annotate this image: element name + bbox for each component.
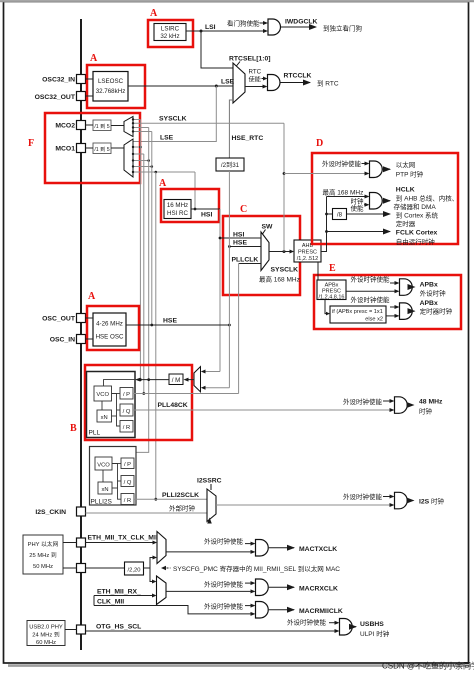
- mux MCO2 input stubs: [133, 119, 140, 121]
- wire MACTXCLK out: [269, 547, 294, 549]
- svg-text:else x2: else x2: [365, 316, 383, 322]
- wire HSI loop into PLL mux: [206, 371, 221, 373]
- wire MCO2 pin: [86, 124, 94, 126]
- svg-text:RTC: RTC: [249, 69, 262, 76]
- wire FCLK: [327, 231, 391, 233]
- PLLI2S /Q: [121, 476, 134, 487]
- svg-text:时钟: 时钟: [419, 407, 433, 416]
- svg-text:48 MHz: 48 MHz: [419, 399, 443, 406]
- wire PLLI2SCLK: [134, 498, 207, 500]
- svg-text:SYSCLK: SYSCLK: [159, 116, 187, 123]
- wire PLLCLK from /P: [133, 393, 239, 395]
- svg-text:/ Q: / Q: [123, 409, 131, 415]
- PLLI2S internal wires: [102, 470, 104, 482]
- divider /M: [169, 374, 183, 385]
- gate USBHS: [340, 619, 353, 636]
- svg-text:25 MHz 到: 25 MHz 到: [29, 552, 57, 559]
- divider /2to31: [216, 158, 244, 171]
- svg-text:A: A: [159, 178, 167, 189]
- wire PLLCLK into SW: [239, 263, 261, 265]
- wire mux to /M: [189, 379, 195, 381]
- svg-text:以太网: 以太网: [396, 160, 416, 169]
- PLLI2S VCO: [95, 457, 112, 470]
- svg-text:HSI RC: HSI RC: [167, 210, 189, 217]
- mux MACTX: [157, 532, 166, 564]
- svg-text:自由运行时钟: 自由运行时钟: [396, 237, 436, 246]
- svg-text:MCO1: MCO1: [55, 146, 75, 153]
- svg-text:OSC_OUT: OSC_OUT: [42, 316, 76, 323]
- svg-text:OSC_IN: OSC_IN: [50, 337, 75, 344]
- bus vertical SYSCLK: [283, 123, 285, 251]
- svg-text:OSC32_IN: OSC32_IN: [42, 77, 75, 84]
- divider /2,20: [125, 562, 144, 575]
- svg-text:60 MHz: 60 MHz: [36, 640, 56, 646]
- svg-text:PLLI2SCLK: PLLI2SCLK: [162, 492, 199, 499]
- svg-text:/ R: / R: [123, 425, 130, 431]
- svg-text:/8: /8: [337, 212, 343, 219]
- svg-text:外设时钟: 外设时钟: [420, 289, 447, 298]
- wire HSI into SW: [220, 237, 261, 239]
- I2S mux select arrow: [207, 518, 212, 524]
- svg-text:/1 到 5: /1 到 5: [94, 123, 109, 130]
- wire OTG_HS clock: [86, 630, 335, 632]
- wire AHB to APB presc: [317, 262, 319, 280]
- SYSCFG select dash arrow: [161, 566, 166, 570]
- svg-text:外设时钟使能: 外设时钟使能: [204, 602, 244, 611]
- wire OSC32_OUT to LSEOSC: [86, 95, 94, 97]
- svg-text:C: C: [240, 204, 247, 215]
- divider APBx PRESC: [317, 280, 346, 300]
- wire mux2 to divider: [111, 125, 124, 127]
- frame bottom shadow: [8, 664, 471, 667]
- svg-text:D: D: [316, 138, 323, 149]
- svg-text:OSC32_OUT: OSC32_OUT: [35, 94, 76, 101]
- gate PTP: [370, 161, 383, 178]
- wire HSE into SW: [229, 246, 261, 248]
- wire RTC mux out: [245, 86, 263, 88]
- wire PHY to TX pin: [63, 542, 77, 544]
- mux PLL source: [194, 367, 201, 392]
- wire MACRMIICLK out: [269, 609, 294, 611]
- pin OTG_HS: [77, 625, 86, 634]
- wire RMII ref clock: [86, 567, 125, 569]
- svg-text:外设时钟使能: 外设时钟使能: [343, 492, 383, 501]
- red box D (AHB clocks): [312, 153, 458, 244]
- if box: [330, 306, 386, 323]
- divider MCO1 /1to5: [93, 143, 111, 154]
- wire LSI: [186, 30, 263, 32]
- gate MACRXCLK: [256, 579, 269, 596]
- svg-text:/2到31: /2到31: [221, 162, 240, 169]
- gate MACTXCLK: [256, 540, 269, 557]
- bus vertical HSI: [219, 209, 221, 372]
- svg-text:USBHS: USBHS: [360, 621, 384, 628]
- wire PTP out: [383, 168, 390, 170]
- PLLI2S block: [90, 447, 137, 506]
- PLLI2S /P: [121, 458, 134, 469]
- svg-text:/ Q: / Q: [124, 480, 132, 486]
- svg-text:LSI: LSI: [205, 24, 216, 31]
- gate HCLK: [370, 193, 383, 210]
- oscillator HSE: [93, 313, 126, 346]
- wire MCO1 pin: [86, 147, 94, 149]
- mux MACRX: [157, 576, 167, 605]
- bus vertical PLL-to-MCO1: [143, 154, 145, 394]
- svg-text:/ M: / M: [172, 377, 181, 384]
- wire OSC32_IN to LSEOSC: [86, 78, 94, 80]
- svg-text:存储器和 DMA: 存储器和 DMA: [394, 202, 437, 211]
- svg-text:CSDN @不吃鱼的小余同学: CSDN @不吃鱼的小余同学: [382, 661, 474, 671]
- svg-text:F: F: [28, 138, 34, 149]
- wire MACTX mux out: [166, 551, 251, 553]
- svg-text:SW: SW: [262, 224, 274, 231]
- svg-text:4-26 MHz: 4-26 MHz: [96, 321, 123, 328]
- svg-text:E: E: [329, 263, 336, 274]
- wire OSC_OUT: [86, 317, 94, 319]
- wire PHY to REF pin: [63, 567, 77, 569]
- svg-text:32.768kHz: 32.768kHz: [96, 88, 126, 95]
- wire RX clock: [94, 595, 152, 597]
- svg-text:USB2.0 PHY: USB2.0 PHY: [29, 625, 63, 631]
- wire HCLK into gate: [327, 196, 365, 198]
- AHB out riser: [321, 197, 327, 252]
- wire PTP clock input: [284, 173, 365, 175]
- svg-text:HSE: HSE: [233, 240, 247, 247]
- svg-text:PLLCLK: PLLCLK: [232, 257, 259, 264]
- wire USB PHY to pin: [65, 629, 77, 631]
- svg-text:SYSCFG_PMC 寄存器中的 MII_RMII_SEL: SYSCFG_PMC 寄存器中的 MII_RMII_SEL 到以太网 MAC: [173, 564, 340, 573]
- svg-text:LSIRC: LSIRC: [161, 26, 180, 33]
- svg-text:I2S 时钟: I2S 时钟: [419, 497, 445, 506]
- red box A4 (HSE OSC): [87, 306, 139, 350]
- mux MCO1: [124, 139, 133, 177]
- bus vertical HSE-to-MCO: [151, 132, 153, 326]
- svg-text:外设时钟使能: 外设时钟使能: [204, 580, 244, 589]
- svg-text:定时器: 定时器: [396, 219, 416, 228]
- bus vertical HSE: [228, 171, 230, 388]
- pin OSC_IN: [77, 335, 86, 344]
- red box F (MCO): [45, 113, 140, 183]
- pin OSC_OUT: [77, 314, 86, 323]
- wire SYSCLK to MCO2: [133, 122, 284, 124]
- riser /2,20 out: [144, 558, 153, 569]
- wire TX clock: [86, 542, 153, 544]
- svg-text:HSI: HSI: [233, 232, 244, 239]
- red box B (PLL): [85, 365, 192, 440]
- wire LSE: [128, 85, 233, 87]
- mux SW: [261, 232, 269, 271]
- svg-text:IWDGCLK: IWDGCLK: [285, 19, 318, 26]
- PLLI2S /R: [121, 494, 134, 505]
- PLL block: [87, 372, 136, 438]
- svg-text:PRESC: PRESC: [298, 250, 317, 256]
- wire PLL48CK from /Q: [133, 409, 390, 411]
- svg-text:定时器时钟: 定时器时钟: [420, 307, 453, 316]
- svg-text:SYSCLK: SYSCLK: [271, 267, 299, 274]
- svg-text:16 MHz: 16 MHz: [167, 202, 188, 209]
- bus vertical PLLI2S-to-MCO2: [139, 120, 141, 380]
- wire 48MHz out: [408, 404, 414, 406]
- svg-text:if (APBx presc = 1x1: if (APBx presc = 1x1: [332, 309, 383, 315]
- USB PHY box: [27, 621, 65, 646]
- svg-text:外设时钟使能: 外设时钟使能: [287, 618, 327, 627]
- svg-text:CLK_MII: CLK_MII: [97, 599, 124, 606]
- svg-text:VCO: VCO: [97, 463, 110, 469]
- svg-text:外设时钟使能: 外设时钟使能: [322, 159, 362, 168]
- pin MCO1: [77, 144, 86, 153]
- gate APBx timer: [400, 303, 413, 320]
- mux MCO1 input stubs: [133, 146, 140, 148]
- svg-text:ETH_MII_RX_: ETH_MII_RX_: [97, 589, 141, 596]
- wire HSE: [126, 324, 229, 326]
- bus vertical HSI-to-MCO1: [194, 172, 196, 209]
- svg-text:最高 168 MHz: 最高 168 MHz: [323, 188, 364, 197]
- svg-text:使能: 使能: [249, 76, 261, 84]
- svg-text:ETH_MII_TX_CLK_MII: ETH_MII_TX_CLK_MII: [88, 535, 158, 542]
- svg-text:I2S_CKIN: I2S_CKIN: [35, 509, 66, 516]
- pin OSC32_IN: [77, 75, 86, 84]
- PLLI2S xN: [98, 482, 112, 494]
- svg-text:I2SSRC: I2SSRC: [197, 478, 222, 485]
- svg-text:/1,2,4,8,16: /1,2,4,8,16: [319, 295, 345, 301]
- mux MCO2: [124, 117, 133, 137]
- wire RTCCLK out: [280, 82, 310, 84]
- gate MACRMIICLK: [256, 602, 269, 619]
- divider /8: [327, 213, 333, 215]
- svg-text:MACRXCLK: MACRXCLK: [299, 586, 338, 593]
- wire LSE vertical to MCO: [133, 86, 216, 142]
- PLL input arrow: [135, 378, 141, 382]
- svg-text:PLL48CK: PLL48CK: [158, 402, 188, 409]
- xN box: [97, 410, 112, 422]
- chip boundary line: [80, 19, 82, 650]
- pin I2S_CKIN: [77, 507, 86, 516]
- pin MCO2: [77, 121, 86, 130]
- svg-text:APBx: APBx: [420, 300, 438, 307]
- svg-text:外设时钟使能: 外设时钟使能: [351, 295, 391, 304]
- svg-text:xN: xN: [101, 415, 108, 421]
- wire HSE loop into PLL mux: [206, 387, 230, 389]
- svg-text:LSE: LSE: [160, 135, 174, 142]
- gate I2S: [395, 492, 408, 509]
- wire I2S external clock: [86, 512, 208, 514]
- wire cortex timer: [347, 213, 391, 215]
- node LSE junction: [215, 85, 218, 88]
- divider /P: [120, 388, 133, 400]
- svg-text:32 kHz: 32 kHz: [160, 33, 179, 40]
- svg-text:MCO2: MCO2: [55, 123, 75, 130]
- svg-text:24 MHz 到: 24 MHz 到: [32, 632, 60, 639]
- oscillator LSEOSC: [93, 72, 128, 102]
- svg-text:时钟: 时钟: [351, 197, 365, 206]
- PLL internal wires: [101, 401, 103, 410]
- svg-text:FCLK Cortex: FCLK Cortex: [396, 230, 438, 237]
- wire I2S out: [408, 500, 414, 502]
- wire MACRX mux out: [166, 590, 251, 592]
- red box A2 (LSEOSC): [87, 65, 145, 108]
- svg-text:RTCCLK: RTCCLK: [284, 73, 312, 80]
- red box A1 (LSIRC): [148, 20, 193, 47]
- wire MACRXCLK out: [269, 586, 294, 588]
- gate 48MHz: [395, 397, 408, 414]
- wire IWDGCLK out: [281, 26, 316, 28]
- svg-text:PLL: PLL: [89, 430, 101, 437]
- svg-text:到 Cortex 系统: 到 Cortex 系统: [396, 211, 439, 220]
- divider AHB PRESC: [294, 240, 321, 262]
- wire OSC_IN: [86, 338, 94, 340]
- wire I2S mux out: [216, 504, 390, 506]
- svg-text:VCO: VCO: [96, 392, 109, 398]
- svg-text:PHY 以太网: PHY 以太网: [28, 540, 59, 548]
- VCO box: [94, 386, 112, 401]
- svg-text:HSI: HSI: [201, 212, 212, 219]
- svg-text:外部时钟: 外部时钟: [169, 504, 196, 513]
- svg-text:外设时钟使能: 外设时钟使能: [204, 537, 244, 546]
- oscillator HSI RC: [164, 200, 191, 219]
- wire HSI: [191, 208, 220, 210]
- wire USBHS out: [353, 626, 356, 628]
- svg-text:PLLI2S: PLLI2S: [91, 499, 113, 506]
- bus vertical PLLCLK: [238, 264, 240, 394]
- wire APBx periph out: [413, 286, 415, 288]
- svg-text:外设时钟使能: 外设时钟使能: [351, 275, 391, 284]
- svg-text:最高 168 MHz: 最高 168 MHz: [259, 275, 300, 284]
- divider /Q: [120, 404, 133, 416]
- wire APBx clock: [346, 290, 395, 292]
- svg-text:/2,20: /2,20: [128, 567, 141, 573]
- wire mux1 to divider: [111, 147, 124, 149]
- svg-text:OTG_HS_SCL: OTG_HS_SCL: [96, 624, 141, 631]
- ETH PHY box: [23, 535, 63, 574]
- wire APBx timer out: [413, 310, 415, 312]
- svg-text:到独立看门狗: 到独立看门狗: [323, 24, 363, 33]
- bus vertical to PLLI2S input: [136, 128, 149, 453]
- svg-text:/1,2..512: /1,2..512: [297, 256, 318, 262]
- red box C (SW): [223, 216, 300, 295]
- svg-text:A: A: [90, 53, 98, 64]
- wire SYSCLK out of SW: [269, 251, 290, 253]
- svg-text:到 RTC: 到 RTC: [317, 80, 339, 88]
- wire RMII to gate: [94, 606, 251, 614]
- gate APBx periph: [400, 279, 413, 296]
- wire if box out: [386, 315, 395, 317]
- svg-text:ULPI 时钟: ULPI 时钟: [360, 629, 390, 638]
- divider MCO2 /1to5: [93, 120, 111, 131]
- bus vertical PLLI2SCLK-to-MCO1: [155, 172, 157, 499]
- svg-text:PTP 时钟: PTP 时钟: [396, 170, 424, 179]
- red box E (APB): [314, 275, 461, 329]
- node LSI junction: [200, 30, 203, 33]
- wire HSE_RTC into mux: [229, 100, 233, 158]
- gate RTC: [268, 75, 281, 91]
- svg-text:MACRMIICLK: MACRMIICLK: [299, 608, 343, 615]
- pin OSC32_OUT: [77, 92, 86, 101]
- svg-text:MACTXCLK: MACTXCLK: [299, 546, 337, 553]
- mux I2S: [207, 489, 216, 522]
- gate IWDG: [268, 19, 281, 35]
- svg-text:A: A: [150, 8, 158, 19]
- svg-text:/ R: / R: [124, 498, 131, 504]
- svg-text:xN: xN: [101, 487, 108, 493]
- svg-text:RTCSEL[1:0]: RTCSEL[1:0]: [229, 56, 271, 63]
- svg-text:A: A: [88, 291, 96, 302]
- red box A3 (HSI RC): [161, 189, 219, 222]
- wire HCLK out: [383, 200, 390, 202]
- pin ETH_RMII_REF: [77, 564, 86, 573]
- svg-text:LSEOSC: LSEOSC: [98, 78, 124, 85]
- oscillator LSIRC 32kHz: [154, 24, 186, 41]
- wire /M to PLL: [141, 379, 170, 381]
- wire LSI to RTC mux: [201, 31, 233, 68]
- svg-text:/1 到 5: /1 到 5: [94, 146, 109, 153]
- RTC enable dash arrow: [262, 78, 264, 80]
- divider /R: [120, 421, 133, 433]
- svg-text:使能: 使能: [351, 204, 365, 213]
- svg-text:LSE: LSE: [221, 79, 235, 86]
- svg-text:/ P: / P: [123, 392, 130, 398]
- svg-text:HSE_RTC: HSE_RTC: [232, 135, 264, 142]
- svg-text:HSE: HSE: [163, 318, 177, 325]
- svg-text:HCLK: HCLK: [396, 187, 415, 194]
- mux RTC source: [233, 63, 245, 103]
- svg-text:到 AHB 总线、内核、: 到 AHB 总线、内核、: [396, 194, 458, 203]
- svg-text:HSE OSC: HSE OSC: [96, 334, 124, 341]
- frame top gray line: [0, 0, 474, 2]
- svg-text:APBx: APBx: [420, 282, 438, 289]
- pin ETH_MII_TX_CLK: [77, 538, 86, 547]
- svg-text:/ P: / P: [124, 462, 131, 468]
- svg-text:外设时钟使能: 外设时钟使能: [343, 397, 383, 406]
- svg-text:看门狗使能: 看门狗使能: [227, 19, 260, 28]
- watchdog enable dash arrow: [260, 22, 264, 24]
- RTC mux select tick: [236, 62, 240, 67]
- svg-text:B: B: [70, 423, 77, 434]
- wire APB presc to if box: [325, 300, 328, 314]
- svg-text:50 MHz: 50 MHz: [33, 564, 53, 570]
